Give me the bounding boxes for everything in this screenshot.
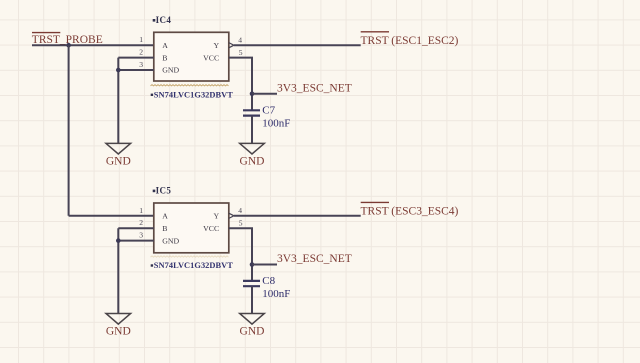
svg-text:3: 3: [139, 60, 143, 69]
svg-text:VCC: VCC: [203, 53, 219, 62]
svg-text:IC5: IC5: [156, 186, 172, 196]
junction VCC / 3V3 net: [250, 91, 255, 96]
svg-text:1: 1: [139, 35, 143, 44]
pin 4 output chevron: [229, 43, 234, 48]
capacitor C7 bottom plate: [243, 114, 260, 116]
svg-text:5: 5: [239, 218, 243, 227]
svg-text:Y: Y: [214, 41, 220, 50]
svg-text:Y: Y: [214, 212, 220, 221]
svg-text:A: A: [162, 212, 168, 221]
svg-text:TRST (ESC1_ESC2): TRST (ESC1_ESC2): [361, 35, 459, 47]
part number bullet: [151, 94, 153, 96]
svg-text:B: B: [162, 224, 167, 233]
svg-text:GND: GND: [162, 236, 179, 245]
svg-text:2: 2: [139, 218, 143, 227]
wire pin VCC of IC5: [229, 228, 252, 281]
net label TRST (ESC1_ESC2) overline: [361, 31, 389, 33]
svg-text:3V3_ESC_NET: 3V3_ESC_NET: [277, 253, 352, 265]
svg-text:GND: GND: [106, 326, 131, 338]
svg-text:1: 1: [139, 206, 143, 215]
junction VCC / 3V3 net: [250, 262, 255, 267]
junction B/GND wire: [116, 68, 121, 73]
wire net TRST_PROBE to pin 1 of IC4: [32, 44, 154, 46]
wire to 3V3_ESC_NET label: [252, 93, 277, 95]
designator IC5 bullet: [153, 190, 156, 193]
wire to 3V3_ESC_NET label: [252, 264, 277, 266]
component error squiggle under IC4: [151, 85, 229, 86]
wire vertical B/GND to ground: [117, 58, 119, 144]
designator IC4 bullet: [153, 19, 156, 22]
svg-text:3: 3: [139, 231, 143, 240]
svg-text:4: 4: [238, 35, 242, 44]
ground symbol under IC4 input pins: [106, 143, 131, 154]
pin 4 output chevron: [229, 213, 234, 218]
svg-text:C7: C7: [262, 105, 275, 117]
faint squiggle under IC5: [151, 256, 229, 257]
wire pin B of IC4: [118, 57, 154, 59]
wire vertical B/GND to ground: [117, 228, 119, 313]
ground symbol under capacitor C7: [240, 143, 265, 154]
svg-text:2: 2: [139, 48, 143, 57]
wire capacitor C8 to ground: [251, 286, 253, 313]
ground symbol under IC5 input pins: [106, 314, 131, 325]
wire capacitor C7 to ground: [251, 116, 253, 144]
capacitor C8 bottom plate: [243, 285, 260, 287]
capacitor C8 top plate: [243, 280, 260, 282]
wire pin Y of IC5 to net label: [234, 215, 361, 217]
IC U4: gate IC4 SN74LVC1G32 body: [154, 32, 229, 81]
wire pin B of IC5: [118, 227, 154, 229]
svg-text:GND: GND: [240, 155, 265, 167]
svg-text:GND: GND: [106, 155, 131, 167]
svg-text:4: 4: [238, 206, 242, 215]
svg-text:100nF: 100nF: [262, 117, 290, 129]
junction on TRST_PROBE wire: [66, 43, 71, 48]
svg-text:VCC: VCC: [203, 224, 219, 233]
junction B/GND wire: [116, 238, 121, 243]
svg-text:3V3_ESC_NET: 3V3_ESC_NET: [277, 83, 352, 95]
svg-text:GND: GND: [240, 326, 265, 338]
wire pin GND of IC4: [118, 69, 154, 71]
svg-text:B: B: [162, 53, 167, 62]
svg-text:SN74LVC1G32DBVT: SN74LVC1G32DBVT: [154, 261, 233, 270]
part number bullet: [151, 264, 153, 266]
net label TRST_PROBE overline: [32, 32, 60, 34]
svg-text:100nF: 100nF: [262, 288, 290, 300]
wire vertical feed to IC5 input: [68, 45, 70, 216]
wire pin VCC of IC4: [229, 58, 252, 111]
svg-text:GND: GND: [162, 66, 179, 75]
svg-text:A: A: [162, 41, 168, 50]
net label TRST (ESC3_ESC4) overline: [361, 201, 389, 203]
wire feed to pin 1 of IC5: [69, 215, 154, 217]
IC U5: gate IC5 SN74LVC1G32 body: [154, 203, 229, 253]
svg-text:IC4: IC4: [156, 15, 172, 25]
svg-text:TRST (ESC3_ESC4): TRST (ESC3_ESC4): [361, 206, 459, 218]
ground symbol under capacitor C8: [240, 314, 265, 325]
svg-text:SN74LVC1G32DBVT: SN74LVC1G32DBVT: [154, 90, 233, 99]
svg-text:5: 5: [239, 48, 243, 57]
capacitor C7 top plate: [243, 109, 260, 111]
svg-text:C8: C8: [262, 275, 275, 287]
wire pin GND of IC5: [118, 240, 154, 242]
wire pin Y of IC4 to net label: [234, 44, 361, 46]
